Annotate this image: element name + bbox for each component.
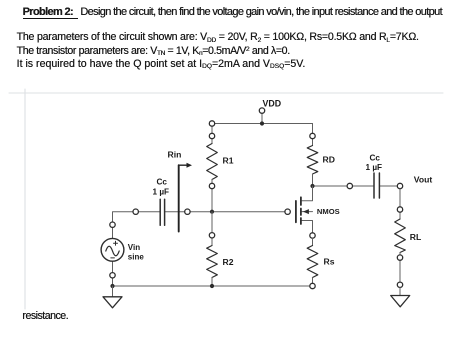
svg-text:Rs: Rs: [324, 257, 335, 267]
svg-text:Cc: Cc: [370, 154, 381, 163]
svg-text:Rin: Rin: [168, 150, 182, 160]
svg-text:Vout: Vout: [414, 175, 433, 185]
svg-text:Cc: Cc: [157, 177, 168, 186]
transistor NMOS: [285, 186, 340, 238]
wire: drain output wire: [313, 185, 401, 187]
parameters line 1: [17, 31, 419, 43]
svg-text:1 µF: 1 µF: [366, 163, 383, 172]
ground (left): [103, 286, 122, 308]
svg-text:Vin: Vin: [128, 243, 140, 252]
junction: drain node: [310, 184, 314, 188]
svg-text:R2: R2: [223, 257, 234, 267]
resistor R1: [207, 121, 234, 212]
node Vout: [397, 175, 432, 189]
junction: R2 to ground rail: [210, 284, 214, 288]
VDD supply terminal: [259, 98, 281, 125]
caption: resistance.: [22, 310, 68, 322]
svg-text:RD: RD: [323, 154, 335, 164]
capacitor Cc output: [347, 154, 382, 199]
wire: gate bias wire (left horizontal): [113, 212, 288, 224]
svg-text:VDD: VDD: [263, 98, 282, 108]
terminal circles on gate wire: [133, 209, 190, 214]
resistor R2: [207, 212, 234, 286]
svg-text:1 µF: 1 µF: [153, 187, 170, 196]
parameters line 2: [17, 45, 290, 57]
junction: Vin to ground rail: [110, 284, 114, 288]
junction: gate node: [210, 210, 214, 214]
wire: top supply rail: [212, 123, 313, 125]
svg-text:sine: sine: [128, 252, 145, 261]
parameters line 3: [17, 58, 306, 70]
wire: bottom ground rail: [113, 285, 313, 287]
svg-text:NMOS: NMOS: [317, 207, 340, 216]
Rin input-resistance arrow: [168, 150, 193, 232]
capacitor Cc input: [153, 177, 170, 225]
svg-text:RL: RL: [410, 232, 421, 242]
resistor RL: [395, 189, 422, 288]
source Vin sine: [101, 222, 144, 286]
ground (right): [391, 288, 410, 307]
resistor RD: [307, 124, 335, 187]
resistor Rs: [307, 238, 335, 289]
svg-text:R1: R1: [223, 155, 234, 165]
problem statement line 1: [23, 6, 442, 18]
